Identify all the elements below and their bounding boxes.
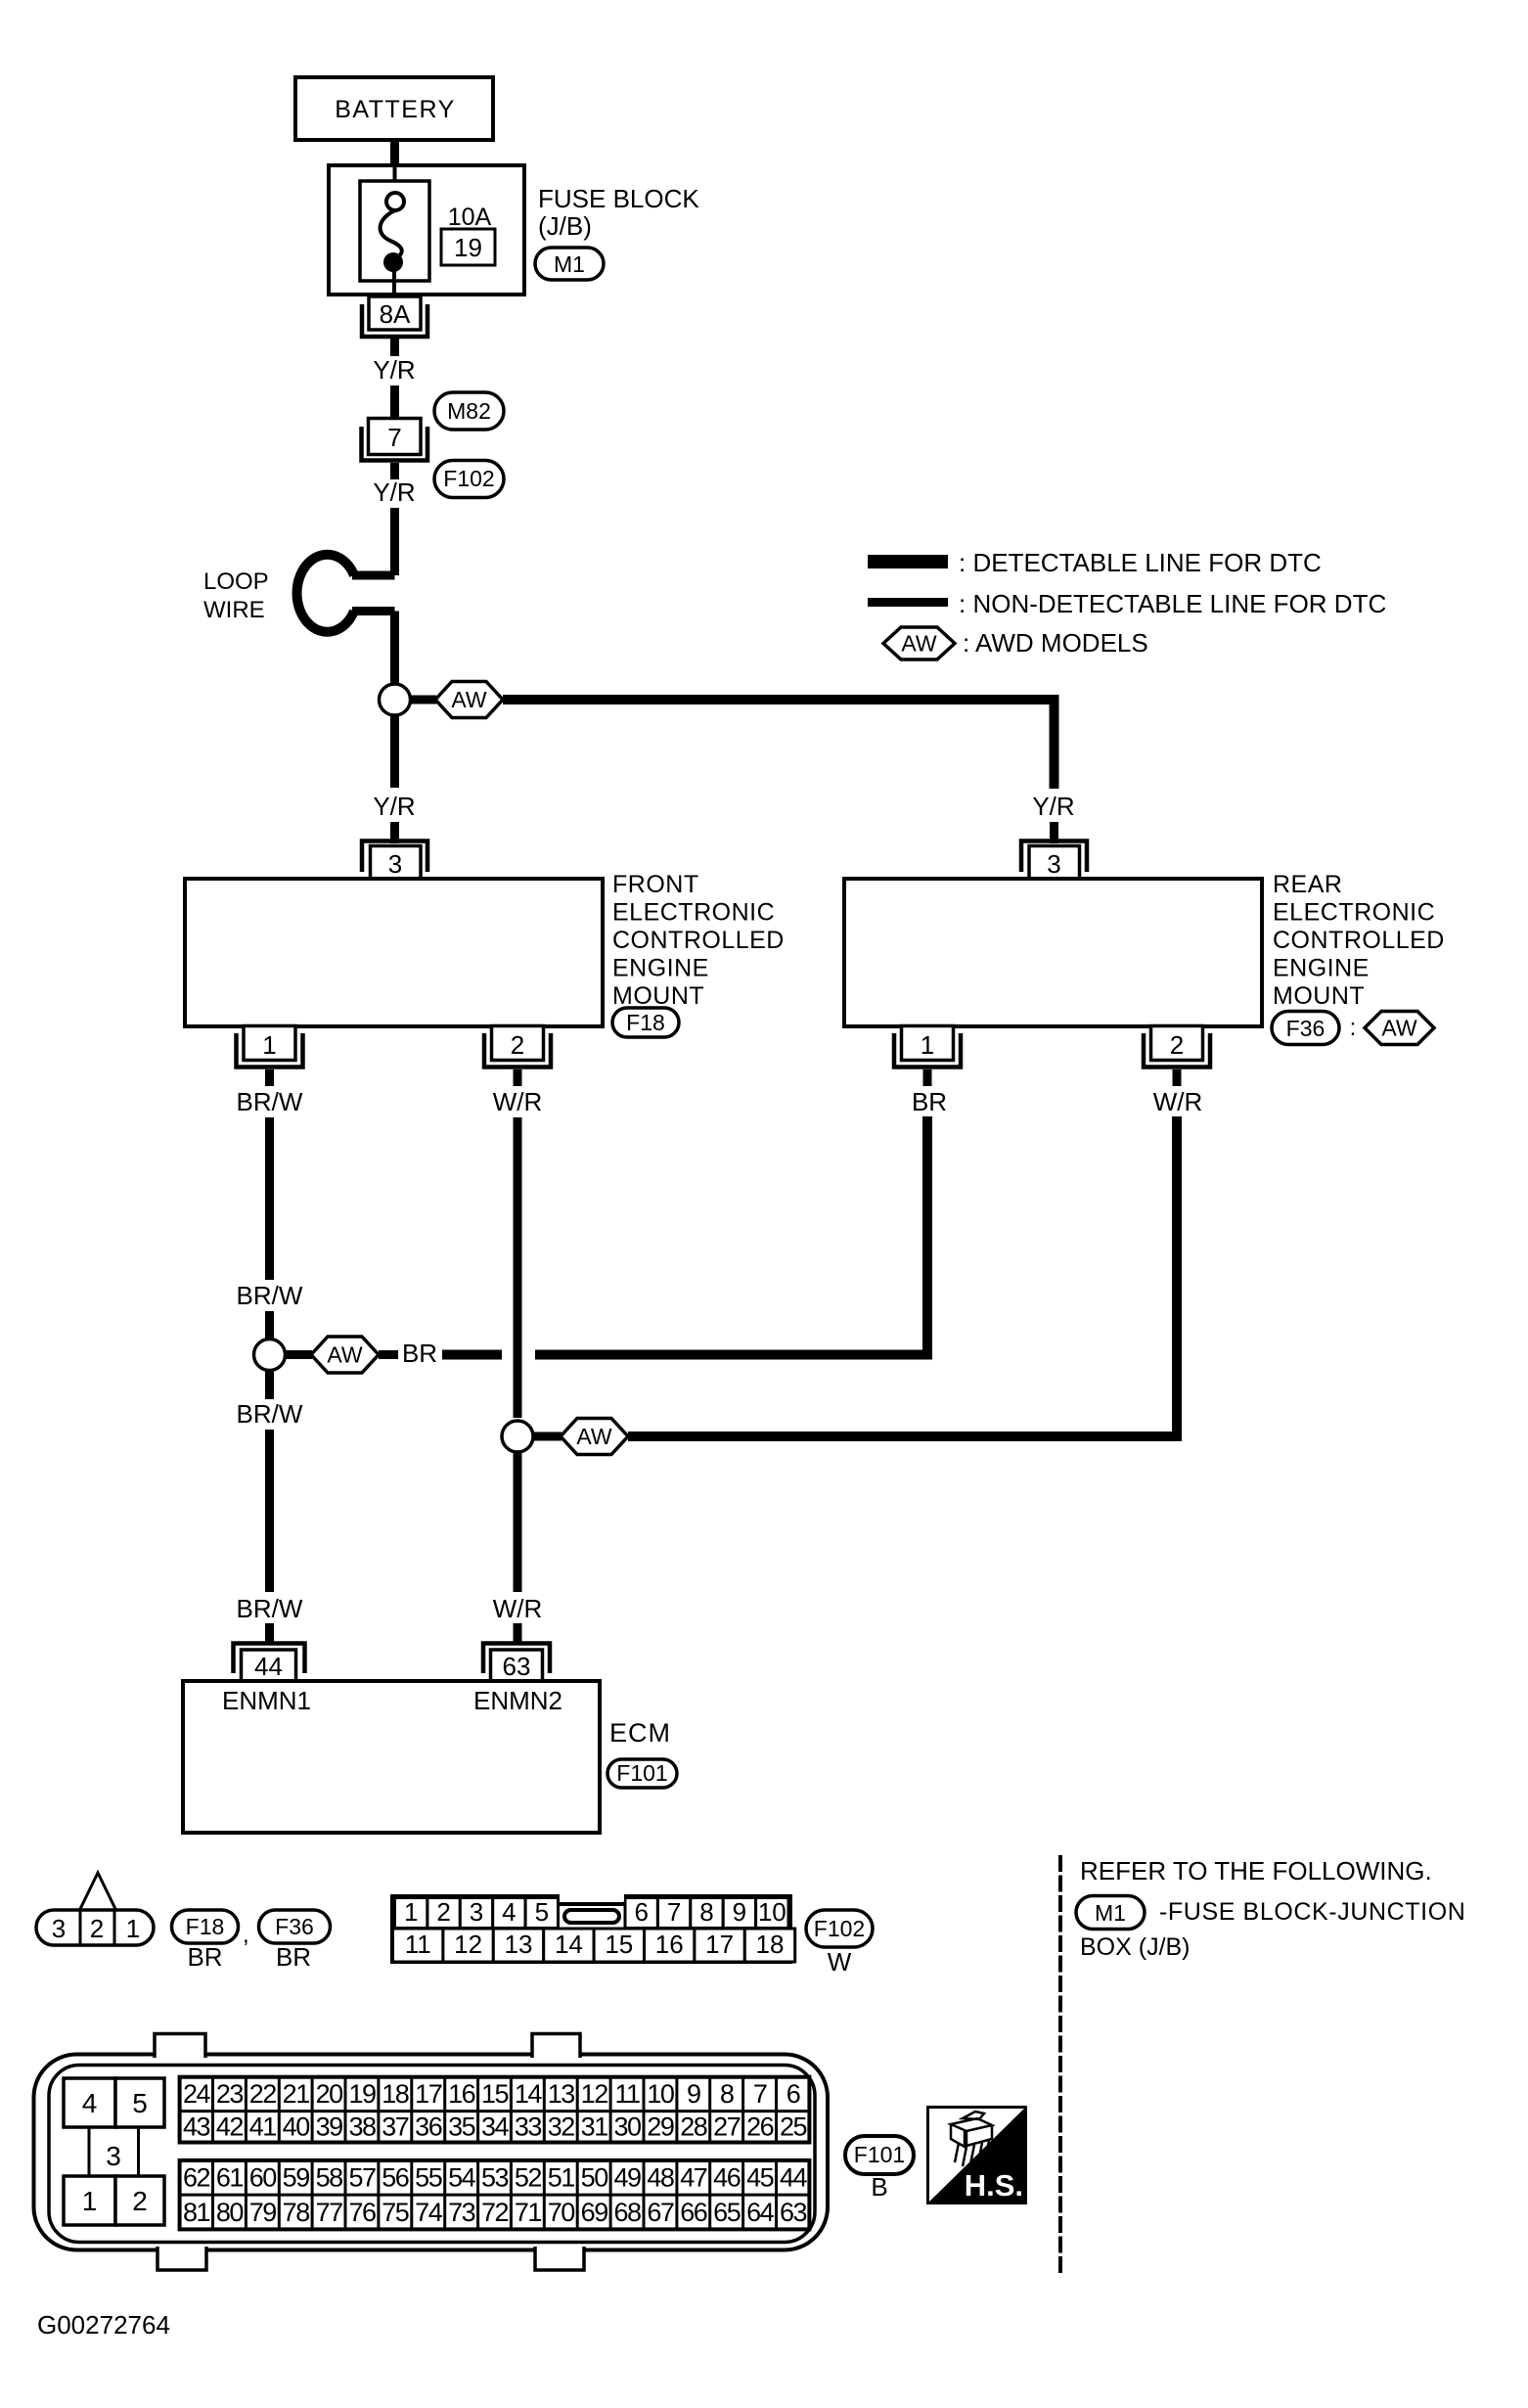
svg-text:77: 77 [316,2198,343,2227]
svg-text:ENMN1: ENMN1 [222,1686,311,1715]
svg-text:42: 42 [216,2113,244,2142]
svg-text:7: 7 [667,1897,681,1927]
svg-text:71: 71 [515,2198,542,2227]
svg-text:3: 3 [470,1897,483,1927]
svg-text:74: 74 [415,2198,443,2227]
svg-text:67: 67 [647,2198,674,2227]
connector pin 7 (M82/F102) [362,419,428,461]
AWD hexagon AW2 [311,1337,379,1373]
junction node circle BR/W [254,1340,286,1371]
svg-text:ENGINE: ENGINE [1273,955,1370,982]
svg-text:17: 17 [705,1930,734,1959]
wire stub below front pin 2 [514,1069,522,1086]
front mount pin 2 [484,1026,551,1068]
junction node circle [380,684,411,715]
oval M1 [535,248,604,280]
loop wire [203,555,395,632]
svg-text:16: 16 [448,2079,475,2109]
svg-text:9: 9 [687,2079,700,2109]
svg-text:W/R: W/R [493,1087,543,1116]
svg-text:10: 10 [758,1897,786,1927]
svg-text:2: 2 [436,1897,450,1927]
svg-text:FRONT: FRONT [612,871,699,898]
svg-text:F101: F101 [616,1760,667,1786]
F102 pin 18 [744,1929,794,1962]
connector pill 3-2-1 [36,1910,154,1945]
svg-text:5: 5 [535,1897,549,1927]
wire Y/R down to loop [390,508,399,575]
oval F36 [1272,1012,1356,1045]
svg-text:60: 60 [249,2163,277,2193]
svg-text:Y/R: Y/R [1032,792,1074,821]
svg-text:40: 40 [283,2113,310,2142]
svg-text:: AWD MODELS: : AWD MODELS [963,628,1148,658]
svg-text:10: 10 [647,2079,674,2109]
svg-text:WIRE: WIRE [203,597,265,623]
svg-text:8: 8 [699,1897,713,1927]
svg-text:44: 44 [780,2163,808,2193]
svg-text:M1: M1 [1095,1900,1126,1926]
svg-text:53: 53 [481,2163,509,2193]
F101 key links and pin 3 [89,2127,139,2176]
svg-text:2: 2 [132,2186,148,2216]
F101 key pin 2 [115,2176,164,2225]
F102 pin 2 [427,1897,460,1929]
oval F36 bottom [259,1910,331,1943]
F102 pin 11 [393,1929,443,1962]
svg-text:AW: AW [1381,1016,1416,1041]
svg-text:63: 63 [503,1652,531,1681]
svg-text:AW: AW [327,1342,362,1368]
wire below loop [390,612,399,684]
ECM box F101 [183,1681,671,1833]
F102 pin 14 [544,1929,594,1962]
F101 inner shell [49,2066,815,2243]
svg-text:2: 2 [511,1030,524,1060]
svg-text:W: W [828,1947,852,1976]
fuse number box 19 [441,229,495,265]
wire W/R front pin2 down [514,1117,522,1418]
svg-text:3: 3 [52,1914,66,1943]
battery B1 [295,77,493,140]
wire stub to pin 63 [514,1623,522,1642]
svg-text:45: 45 [746,2163,774,2193]
svg-text:19: 19 [454,233,482,262]
svg-text:41: 41 [249,2113,277,2142]
svg-text:F101: F101 [854,2142,905,2167]
svg-text:79: 79 [249,2198,277,2227]
F102 pin 16 [645,1929,695,1962]
svg-text:11: 11 [614,2079,640,2109]
svg-text:W/R: W/R [493,1594,543,1623]
connector F102 18-pin outer [392,1896,790,1962]
svg-text:73: 73 [448,2198,475,2227]
svg-text:78: 78 [283,2198,310,2227]
svg-text:BR: BR [187,1942,222,1972]
svg-text:39: 39 [316,2113,343,2142]
F101 key pin 5 [115,2078,164,2127]
svg-text:,: , [243,1922,249,1948]
wire stub below 8A [390,339,399,356]
svg-text:6: 6 [786,2079,800,2109]
svg-text:58: 58 [316,2163,343,2193]
svg-text:11: 11 [405,1930,431,1959]
wire Y/R segment [390,386,399,420]
svg-text:Y/R: Y/R [373,477,415,507]
svg-text:50: 50 [581,2163,608,2193]
F102 pin 12 [443,1929,493,1962]
detectable line AWD branch to rear mount [503,700,1055,789]
svg-text:2: 2 [90,1914,104,1943]
F102 pin 17 [695,1929,744,1962]
svg-text:3: 3 [106,2141,121,2171]
rear mount pin 2 [1144,1026,1210,1068]
svg-text:ELECTRONIC: ELECTRONIC [1273,899,1435,927]
svg-text:(J/B): (J/B) [538,211,592,241]
oval M82 [434,392,504,430]
svg-text:15: 15 [481,2079,509,2109]
F102 pin 13 [493,1929,543,1962]
ECM pin 44 [234,1644,305,1682]
F102 pin 7 [657,1897,690,1929]
svg-text:CONTROLLED: CONTROLLED [612,927,785,954]
svg-text:37: 37 [382,2113,409,2142]
F101 key pin 4 [64,2078,115,2127]
svg-text:3: 3 [388,849,402,879]
oval F18 bottom [172,1910,239,1943]
fuse F19 10A [360,181,492,295]
wire battery to fuse block [390,140,399,165]
svg-text:70: 70 [548,2198,575,2227]
wire stub node to AW3 [533,1432,562,1441]
svg-text:9: 9 [733,1897,746,1927]
oval F101 [607,1759,677,1788]
front mount pin 1 [237,1026,303,1068]
svg-text:BR: BR [912,1087,947,1116]
svg-text:1: 1 [82,2186,98,2216]
svg-text:F36: F36 [1286,1016,1326,1041]
svg-text:19: 19 [348,2079,376,2109]
wire stub to rear pin 3 [1050,822,1058,843]
svg-text:59: 59 [283,2163,310,2193]
svg-text:15: 15 [605,1930,633,1959]
svg-text:32: 32 [548,2113,575,2142]
svg-text:76: 76 [348,2198,376,2227]
svg-text:75: 75 [382,2198,409,2227]
junction node circle W/R [502,1421,533,1452]
svg-text:61: 61 [216,2163,244,2193]
legend AW hexagon [883,627,955,659]
svg-text:20: 20 [316,2079,343,2109]
svg-text:56: 56 [382,2163,409,2193]
svg-text:24: 24 [183,2079,211,2109]
svg-text:BR/W: BR/W [237,1594,303,1623]
F102 pin 15 [594,1929,644,1962]
wire from node down (front) [390,715,399,788]
svg-text:REFER TO THE FOLLOWING.: REFER TO THE FOLLOWING. [1080,1856,1432,1886]
wire stub node to AW [411,696,436,704]
wire below node W/R [514,1453,522,1593]
svg-text:ENMN2: ENMN2 [473,1686,562,1715]
connector F101 outer shell [34,2055,829,2250]
svg-text:AW: AW [901,631,936,657]
svg-text:30: 30 [613,2113,641,2142]
svg-text:6: 6 [634,1897,648,1927]
svg-text:AW: AW [576,1424,611,1449]
svg-text:BR: BR [276,1942,311,1972]
svg-text:48: 48 [647,2163,674,2193]
svg-text:81: 81 [183,2198,210,2227]
svg-text:M82: M82 [447,398,491,424]
svg-text:FUSE BLOCK: FUSE BLOCK [538,184,699,213]
svg-text:16: 16 [655,1930,684,1959]
svg-text:22: 22 [249,2079,277,2109]
wire stub below rear pin 2 [1173,1069,1182,1086]
svg-text:M1: M1 [554,251,585,277]
svg-text:BR/W: BR/W [237,1399,303,1429]
svg-text:23: 23 [216,2079,244,2109]
svg-text:38: 38 [348,2113,376,2142]
svg-text:21: 21 [283,2079,310,2109]
svg-text:52: 52 [515,2163,542,2193]
AWD hexagon AW1 [435,682,503,718]
wire BR/W front pin1 down [265,1117,274,1280]
wire below node BR/W [265,1371,274,1399]
svg-text:62: 62 [183,2163,210,2193]
F101 grid band pins 24-6 / 43-25 [180,2077,810,2143]
svg-text:H.S.: H.S. [965,2168,1023,2203]
svg-text:BOX (J/B): BOX (J/B) [1080,1933,1191,1961]
svg-text:F102: F102 [814,1916,865,1941]
svg-text:7: 7 [753,2079,767,2109]
svg-text:34: 34 [481,2113,510,2142]
ECM pin 63 [483,1644,550,1682]
svg-text:14: 14 [515,2079,543,2109]
oval F18 [612,1008,679,1037]
svg-text:1: 1 [404,1897,418,1927]
svg-text:REAR: REAR [1273,871,1342,898]
svg-text:49: 49 [613,2163,641,2193]
oval M1 note [1076,1896,1145,1930]
svg-text:65: 65 [713,2198,741,2227]
svg-text:8: 8 [720,2079,734,2109]
oval F101 bottom [845,2136,914,2174]
F102 pin 9 [723,1897,755,1929]
svg-text:57: 57 [348,2163,376,2193]
svg-text:: NON-DETECTABLE LINE FOR DTC: : NON-DETECTABLE LINE FOR DTC [959,589,1386,618]
svg-text:28: 28 [680,2113,707,2142]
svg-text:68: 68 [613,2198,641,2227]
svg-text:MOUNT: MOUNT [612,982,704,1010]
wire stub below front pin 1 [265,1069,274,1086]
svg-text:18: 18 [756,1930,785,1959]
svg-text:63: 63 [780,2198,807,2227]
svg-text:ENGINE: ENGINE [612,955,709,982]
wire BR/W down to ECM [265,1430,274,1592]
F102 pin 8 [691,1897,723,1929]
svg-text:BR: BR [402,1339,437,1368]
F102 pin 10 [756,1897,788,1929]
svg-text:80: 80 [216,2198,244,2227]
detectable line BR continues [535,1116,927,1355]
svg-text:ELECTRONIC: ELECTRONIC [612,899,775,927]
oval F102 bottom [806,1910,873,1947]
svg-text:25: 25 [780,2113,807,2142]
F102 pin 6 [625,1897,657,1929]
detectable line BR to rear pin1 (gap at W/R crossing) [442,1350,502,1360]
svg-text:F18: F18 [186,1914,225,1939]
svg-text:CONTROLLED: CONTROLLED [1273,927,1445,954]
svg-text:12: 12 [454,1930,482,1959]
F102 pin 3 [460,1897,492,1929]
svg-text:29: 29 [647,2113,674,2142]
svg-text:14: 14 [555,1930,583,1959]
svg-text:1: 1 [126,1914,140,1943]
svg-text:AW: AW [451,687,486,712]
svg-text:-FUSE BLOCK-JUNCTION: -FUSE BLOCK-JUNCTION [1159,1898,1465,1926]
svg-text:3: 3 [1047,849,1060,879]
svg-text:F102: F102 [443,466,494,491]
wire BR/W to node [265,1311,274,1339]
svg-text:10A: 10A [448,204,492,231]
wire stub to pin 44 [265,1623,274,1642]
svg-text:64: 64 [746,2198,775,2227]
svg-text:54: 54 [448,2163,476,2193]
rear engine mount pin 3 [1021,841,1087,881]
F101 shell tab top right [532,2034,580,2059]
svg-text:5: 5 [132,2088,148,2118]
svg-text:72: 72 [481,2198,509,2227]
connector key triangle [80,1873,116,1910]
wire into fuse [393,165,397,194]
svg-text:ECM: ECM [609,1718,671,1748]
wire stub to front pin 3 [390,822,399,843]
svg-text:BATTERY: BATTERY [335,96,456,123]
front electronic controlled engine mount box F18 [185,871,785,1026]
svg-text:51: 51 [548,2163,575,2193]
svg-text:W/R: W/R [1153,1087,1203,1116]
svg-text:33: 33 [515,2113,542,2142]
wire stub node to AW2 [286,1350,312,1359]
svg-text:66: 66 [680,2198,707,2227]
svg-text:1: 1 [921,1030,934,1060]
F101 shell tab bottom left [157,2247,206,2270]
F102 pin 4 [493,1897,525,1929]
svg-text:46: 46 [713,2163,741,2193]
svg-text:Y/R: Y/R [373,792,415,821]
svg-text:31: 31 [581,2113,608,2142]
svg-text:26: 26 [746,2113,774,2142]
svg-text:MOUNT: MOUNT [1273,982,1365,1010]
F101 grid band pins 62-44 / 81-63 [180,2160,810,2230]
rear mount pin 1 [894,1026,961,1068]
F102 pin 5 [525,1897,558,1929]
svg-text:36: 36 [415,2113,442,2142]
svg-text:13: 13 [505,1930,533,1959]
svg-text:47: 47 [680,2163,707,2193]
F101 key pin 1 [64,2176,115,2225]
svg-text::: : [1350,1015,1357,1041]
svg-text:27: 27 [713,2113,741,2142]
svg-text:G00272764: G00272764 [37,2310,170,2340]
svg-text:F18: F18 [626,1010,665,1035]
F101 shell tab top left [155,2034,205,2059]
svg-text:44: 44 [254,1652,283,1681]
wire stub below 7 [390,463,399,479]
svg-text:4: 4 [82,2088,98,2118]
rear electronic controlled engine mount box F36 [844,871,1445,1026]
svg-text:8A: 8A [380,299,411,329]
legend non-detectable line sample [868,598,948,607]
svg-text:43: 43 [183,2113,210,2142]
svg-text:35: 35 [448,2113,475,2142]
svg-text:BR/W: BR/W [237,1087,303,1116]
front engine mount pin 3 [362,841,427,881]
connector pin 8A [362,296,427,337]
svg-text:B: B [871,2172,887,2202]
F102 pin 1 [395,1897,427,1929]
detectable line to rear pin2 [628,1116,1177,1436]
svg-text:2: 2 [1170,1030,1184,1060]
svg-text:12: 12 [581,2079,608,2109]
svg-text:BR/W: BR/W [237,1281,303,1310]
svg-text:Y/R: Y/R [373,355,415,385]
wire stub AW2 to BR label [379,1350,398,1359]
AWD hexagon at F36 [1365,1012,1434,1045]
oval F102 [434,461,504,498]
svg-text:1: 1 [262,1030,276,1060]
svg-text:69: 69 [581,2198,608,2227]
F102 key slot [558,1891,625,1923]
fuse block box M1 [329,165,699,295]
wire stub below rear pin 1 [923,1069,932,1086]
legend detectable line sample [868,555,948,568]
svg-text:4: 4 [502,1897,516,1927]
svg-text:LOOP: LOOP [203,568,269,595]
svg-text:17: 17 [415,2079,442,2109]
svg-text:13: 13 [548,2079,575,2109]
svg-text:55: 55 [415,2163,442,2193]
AWD hexagon AW3 [561,1419,628,1455]
F101 shell tab bottom right [535,2247,584,2270]
svg-text:18: 18 [382,2079,409,2109]
svg-text:: DETECTABLE LINE FOR DTC: : DETECTABLE LINE FOR DTC [959,548,1322,577]
svg-text:F36: F36 [275,1914,314,1939]
separator dashed line [1058,1855,1062,2276]
H.S. view symbol [928,2108,1026,2204]
svg-text:7: 7 [387,423,401,452]
